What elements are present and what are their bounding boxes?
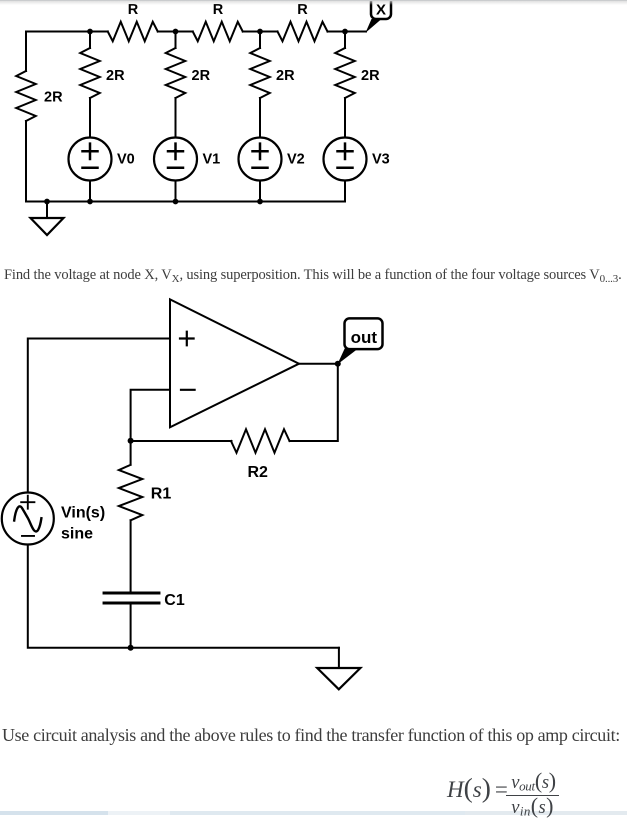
svg-text:R1: R1 bbox=[151, 486, 172, 503]
svg-text:Vin(s): Vin(s) bbox=[61, 505, 105, 522]
svg-text:2R: 2R bbox=[361, 68, 380, 84]
svg-text:R2: R2 bbox=[248, 464, 269, 481]
svg-text:V0: V0 bbox=[117, 152, 135, 168]
svg-text:sine: sine bbox=[61, 526, 93, 543]
svg-text:2R: 2R bbox=[276, 68, 295, 84]
svg-text:2R: 2R bbox=[106, 68, 125, 84]
svg-text:2R: 2R bbox=[44, 90, 63, 106]
svg-text:out: out bbox=[351, 328, 378, 347]
svg-text:V2: V2 bbox=[287, 152, 305, 168]
svg-text:V3: V3 bbox=[372, 152, 390, 168]
svg-text:C1: C1 bbox=[164, 592, 185, 609]
svg-text:2R: 2R bbox=[192, 68, 211, 84]
svg-text:V1: V1 bbox=[203, 152, 221, 168]
